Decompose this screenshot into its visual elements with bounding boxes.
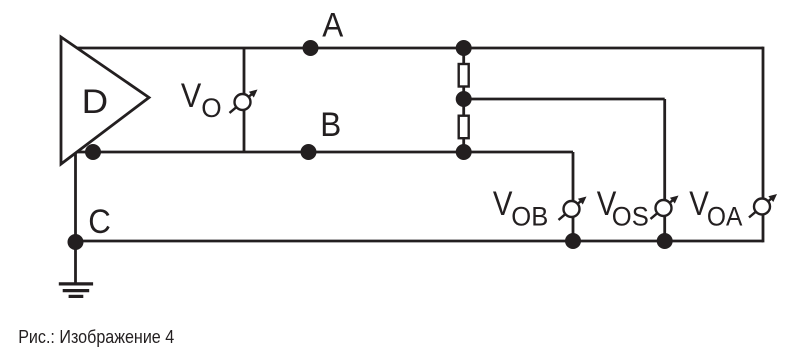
svg-text:V: V bbox=[493, 185, 513, 223]
wire: VO vertical across outputs bbox=[243, 48, 246, 152]
svg-text:OB: OB bbox=[511, 202, 548, 232]
voltmeter VO symbol bbox=[230, 90, 258, 113]
resistor R1 (upper) bbox=[459, 64, 469, 87]
voltmeter VOA symbol bbox=[749, 194, 777, 217]
node B junction dot bbox=[301, 144, 317, 160]
svg-text:OA: OA bbox=[707, 202, 743, 232]
wire: node C horizontal (bottom) bbox=[76, 240, 764, 243]
junction dot between resistors bbox=[456, 91, 472, 107]
amplifier D (triangle) bbox=[61, 37, 149, 164]
wire: right vertical branch to VOA bbox=[762, 47, 765, 243]
junction dot VOS on C wire bbox=[657, 233, 673, 249]
wire: resistor chain vertical bbox=[462, 48, 465, 152]
voltmeter VOB symbol bbox=[559, 197, 587, 220]
svg-text:D: D bbox=[82, 83, 109, 121]
svg-text:OS: OS bbox=[612, 202, 649, 232]
junction dot at triangle output on B wire bbox=[85, 144, 101, 160]
svg-text:V: V bbox=[181, 77, 202, 115]
junction dot VOB on C wire bbox=[565, 233, 581, 249]
voltmeter VOS symbol bbox=[651, 196, 679, 219]
junction dot resistor chain bottom bbox=[456, 144, 472, 160]
node C junction dot bbox=[68, 234, 84, 250]
junction dot resistor chain top bbox=[456, 40, 472, 56]
wire: VOS branch down bbox=[663, 99, 666, 241]
svg-text:O: O bbox=[201, 93, 221, 123]
svg-text:B: B bbox=[320, 106, 341, 144]
ground bbox=[59, 284, 93, 297]
svg-text:C: C bbox=[88, 203, 111, 241]
svg-text:A: A bbox=[322, 7, 343, 45]
wire: B branch down to VOB bbox=[572, 152, 575, 241]
wire: triangle to ground vertical bbox=[74, 140, 77, 284]
resistor R2 (lower) bbox=[459, 116, 469, 139]
node A junction dot bbox=[303, 40, 319, 56]
wire: node B horizontal bbox=[62, 151, 573, 154]
wire: mid resistor node horizontal to VOS bbox=[464, 98, 665, 101]
svg-text:Рис.: Изображение 4: Рис.: Изображение 4 bbox=[18, 326, 174, 347]
wire: node A horizontal (top) bbox=[62, 47, 763, 50]
